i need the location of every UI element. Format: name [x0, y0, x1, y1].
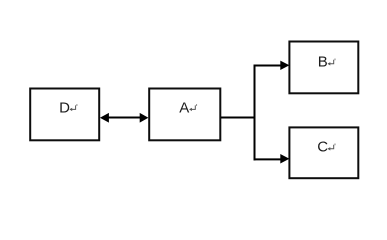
paragraph return mark after B: [328, 59, 336, 66]
wire branch to C: [254, 158, 282, 160]
arrowhead left (into D): [100, 113, 109, 123]
paragraph return mark after D: [69, 104, 77, 111]
paragraph return mark after C: [328, 144, 336, 151]
box B: [289, 42, 358, 94]
wire branch to B: [254, 65, 282, 67]
arrowhead into C: [280, 154, 289, 164]
arrowhead into B: [280, 61, 289, 70]
arrowhead right (into A): [140, 113, 149, 123]
box C: [289, 127, 358, 178]
box D: [30, 89, 99, 141]
double-headed arrow wire D to A: [106, 117, 142, 119]
paragraph return mark after A: [189, 104, 197, 111]
wire A to branch point: [221, 117, 256, 119]
svg-text:D: D: [59, 99, 70, 116]
svg-text:C: C: [317, 139, 328, 156]
branch vertical wire: [254, 65, 256, 161]
svg-text:A: A: [179, 99, 189, 116]
svg-text:B: B: [318, 54, 328, 71]
box A: [149, 89, 220, 141]
